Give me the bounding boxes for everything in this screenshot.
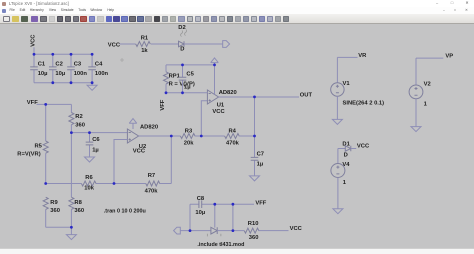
wire U1 output bbox=[219, 96, 299, 98]
capacitor C5 bbox=[179, 65, 195, 93]
wire R4 to C7 node bbox=[239, 135, 255, 137]
svg-text:D: D bbox=[344, 153, 348, 159]
svg-text:470k: 470k bbox=[145, 188, 159, 194]
wire R2 bottom stub bbox=[70, 125, 72, 133]
wire D2 to port bbox=[184, 43, 223, 45]
voltage source V4 bbox=[331, 149, 350, 209]
svg-text:1µ: 1µ bbox=[257, 162, 264, 168]
ground (V1) bbox=[332, 119, 342, 124]
ground (cap bank) bbox=[87, 83, 97, 91]
svg-text:VCC: VCC bbox=[133, 149, 146, 155]
svg-text:V2: V2 bbox=[424, 81, 431, 87]
svg-text:U1: U1 bbox=[217, 102, 225, 108]
svg-text:360: 360 bbox=[75, 123, 85, 129]
title bar bbox=[0, 0, 474, 7]
resistor R2 bbox=[69, 113, 85, 129]
svg-text:1: 1 bbox=[343, 180, 347, 186]
diode D1 bbox=[338, 142, 356, 159]
wire VCC stem bbox=[33, 47, 35, 54]
wire R7 rail bbox=[114, 183, 171, 185]
menu bar bbox=[0, 7, 474, 14]
svg-text:R6: R6 bbox=[85, 175, 93, 181]
power flag above U2 bbox=[129, 119, 137, 124]
voltage source V1 bbox=[331, 57, 384, 119]
toolbar bbox=[0, 14, 474, 24]
resistor R3 bbox=[180, 129, 195, 147]
svg-text:R3: R3 bbox=[185, 129, 193, 135]
svg-text:VFF: VFF bbox=[160, 99, 166, 110]
wire TL431 right vertical bbox=[232, 204, 234, 230]
wire R6 rail bbox=[46, 183, 114, 185]
svg-text:1k: 1k bbox=[141, 48, 148, 54]
wire output node vertical bbox=[254, 97, 256, 136]
wire TL431 cathode bbox=[217, 230, 244, 232]
svg-text:VCC: VCC bbox=[108, 42, 121, 48]
resistor R6 bbox=[81, 175, 96, 192]
svg-text:VP: VP bbox=[445, 54, 453, 60]
TL431 U3 bbox=[207, 204, 221, 236]
ground (below R8) bbox=[66, 227, 76, 239]
resistor R8 bbox=[69, 197, 84, 214]
ground (C7) bbox=[250, 176, 260, 181]
resistor R7 bbox=[145, 173, 160, 194]
resistor R5 bbox=[17, 141, 48, 158]
svg-text:V1: V1 bbox=[343, 81, 351, 87]
capacitor C1 bbox=[30, 54, 47, 82]
svg-text:RP1: RP1 bbox=[169, 73, 181, 79]
resistor R10 bbox=[244, 221, 259, 241]
svg-text:VCC: VCC bbox=[357, 144, 370, 150]
wire R8 bottom stub bbox=[70, 209, 72, 227]
svg-text:10µ: 10µ bbox=[55, 71, 65, 77]
wire R10 to VCC bbox=[258, 230, 288, 232]
svg-text:360: 360 bbox=[74, 208, 84, 214]
svg-text:R4: R4 bbox=[229, 129, 237, 135]
svg-text:R10: R10 bbox=[248, 221, 259, 227]
svg-text:C6: C6 bbox=[92, 137, 100, 143]
wire top rail of cap bank bbox=[34, 53, 92, 55]
svg-text:R9: R9 bbox=[50, 200, 58, 206]
svg-text:.tran 0 10 0 200u: .tran 0 10 0 200u bbox=[104, 209, 146, 215]
svg-text:470k: 470k bbox=[226, 141, 240, 147]
wire U2 output bbox=[139, 135, 181, 137]
wire R2-bottom rail to U2 inverting input bbox=[71, 132, 127, 134]
svg-text:AD820: AD820 bbox=[219, 90, 237, 96]
resistor R4 bbox=[225, 129, 240, 147]
svg-text:D2: D2 bbox=[178, 25, 185, 31]
diode D2 bbox=[178, 25, 186, 53]
svg-text:C7: C7 bbox=[257, 151, 264, 157]
svg-text:VCC: VCC bbox=[212, 109, 225, 115]
resistor R9 bbox=[43, 197, 60, 214]
power flag above U1 bbox=[211, 58, 219, 65]
wire TL431 left vertical bbox=[189, 204, 191, 230]
svg-text:R2: R2 bbox=[75, 114, 82, 120]
wire R1 to D2 bbox=[151, 43, 179, 45]
svg-text:D: D bbox=[180, 47, 184, 53]
wire R2 top stub bbox=[70, 104, 72, 112]
svg-text:V4: V4 bbox=[342, 162, 350, 168]
op-amp U2 AD820 bbox=[127, 124, 158, 154]
svg-text:VCC: VCC bbox=[290, 226, 303, 232]
op-amp U1 AD820 bbox=[207, 90, 236, 115]
wire VCC to R1 bbox=[120, 43, 136, 45]
svg-text:100n: 100n bbox=[95, 71, 109, 77]
svg-text:VFF: VFF bbox=[27, 100, 38, 106]
svg-text:R1: R1 bbox=[141, 35, 149, 41]
svg-text:C2: C2 bbox=[55, 61, 62, 67]
wire bottom rail R9-R8 bbox=[46, 226, 72, 228]
svg-text:AD820: AD820 bbox=[140, 124, 158, 130]
wire U1 top pin bbox=[214, 65, 216, 95]
wire R9 bottom stub bbox=[45, 209, 47, 227]
resistor R1 bbox=[136, 35, 151, 54]
wire VFF rail bbox=[37, 103, 72, 105]
svg-text:10k: 10k bbox=[84, 186, 94, 192]
wire bottom rail of cap bank bbox=[34, 82, 92, 84]
svg-text:1µ: 1µ bbox=[184, 85, 191, 91]
capacitor C6 bbox=[86, 133, 101, 157]
svg-text:C1: C1 bbox=[38, 61, 46, 67]
svg-text:.include tl431.mod: .include tl431.mod bbox=[197, 242, 244, 248]
wire R5 top stub bbox=[45, 104, 47, 141]
svg-text:10µ: 10µ bbox=[38, 71, 48, 77]
svg-text:360: 360 bbox=[50, 208, 60, 214]
svg-text:100n: 100n bbox=[74, 71, 88, 77]
capacitor C7 bbox=[251, 136, 264, 176]
svg-text:C3: C3 bbox=[74, 61, 82, 67]
ground (C6) bbox=[85, 157, 95, 162]
svg-text:20k: 20k bbox=[184, 141, 194, 147]
voltage source V2 bbox=[409, 58, 443, 127]
port flag (right arrow) bbox=[223, 41, 230, 48]
svg-text:360: 360 bbox=[249, 235, 259, 241]
wire U2 top pin bbox=[132, 123, 134, 129]
svg-text:SINE(264 2 0.1): SINE(264 2 0.1) bbox=[343, 101, 385, 107]
resistor RP1 bbox=[164, 65, 195, 93]
wire U2 +input from R6/R7 junction bbox=[114, 140, 127, 184]
svg-text:VCC: VCC bbox=[31, 34, 37, 47]
wire R3 to R4 bbox=[195, 135, 225, 137]
wire R7 feedback vertical bbox=[170, 136, 172, 184]
wire RP1/C5 bottom rail to U1 inverting input bbox=[166, 92, 207, 94]
wire TL431 top rail to VFF bbox=[215, 203, 254, 205]
capacitor C8 bbox=[190, 196, 215, 216]
svg-text:R8: R8 bbox=[74, 200, 82, 206]
wire port to TL431 anode bbox=[180, 230, 211, 232]
svg-text:10µ: 10µ bbox=[195, 210, 205, 216]
svg-text:R5: R5 bbox=[35, 144, 43, 150]
status bar bbox=[0, 248, 474, 254]
svg-text:OUT: OUT bbox=[300, 93, 313, 99]
svg-text:1: 1 bbox=[424, 102, 428, 108]
svg-text:R7: R7 bbox=[148, 173, 155, 179]
svg-text:C4: C4 bbox=[95, 61, 103, 67]
wire R8 vertical (R2 bottom to R8) bbox=[70, 133, 72, 198]
svg-text:R = V(VP): R = V(VP) bbox=[169, 82, 195, 88]
capacitor C3 bbox=[67, 54, 87, 82]
cursor cross bbox=[120, 58, 124, 62]
svg-text:VR: VR bbox=[358, 53, 367, 59]
svg-text:D1: D1 bbox=[342, 142, 350, 148]
svg-text:VFF: VFF bbox=[255, 200, 266, 206]
wire RP1/C5 top rail bbox=[166, 64, 215, 66]
ground (V4) bbox=[333, 209, 343, 214]
svg-text:C8: C8 bbox=[197, 196, 205, 202]
wire R5 bottom stub bbox=[45, 153, 47, 183]
capacitor C2 bbox=[49, 54, 65, 82]
svg-text:C5: C5 bbox=[186, 72, 194, 78]
ground (V2) bbox=[411, 127, 421, 132]
svg-text:1µ: 1µ bbox=[92, 148, 99, 154]
svg-text:R=V(VR): R=V(VR) bbox=[17, 152, 40, 158]
wire U1 +input riser bbox=[201, 101, 207, 136]
capacitor C4 bbox=[88, 54, 108, 82]
port flag (left arrow input) bbox=[174, 227, 181, 234]
